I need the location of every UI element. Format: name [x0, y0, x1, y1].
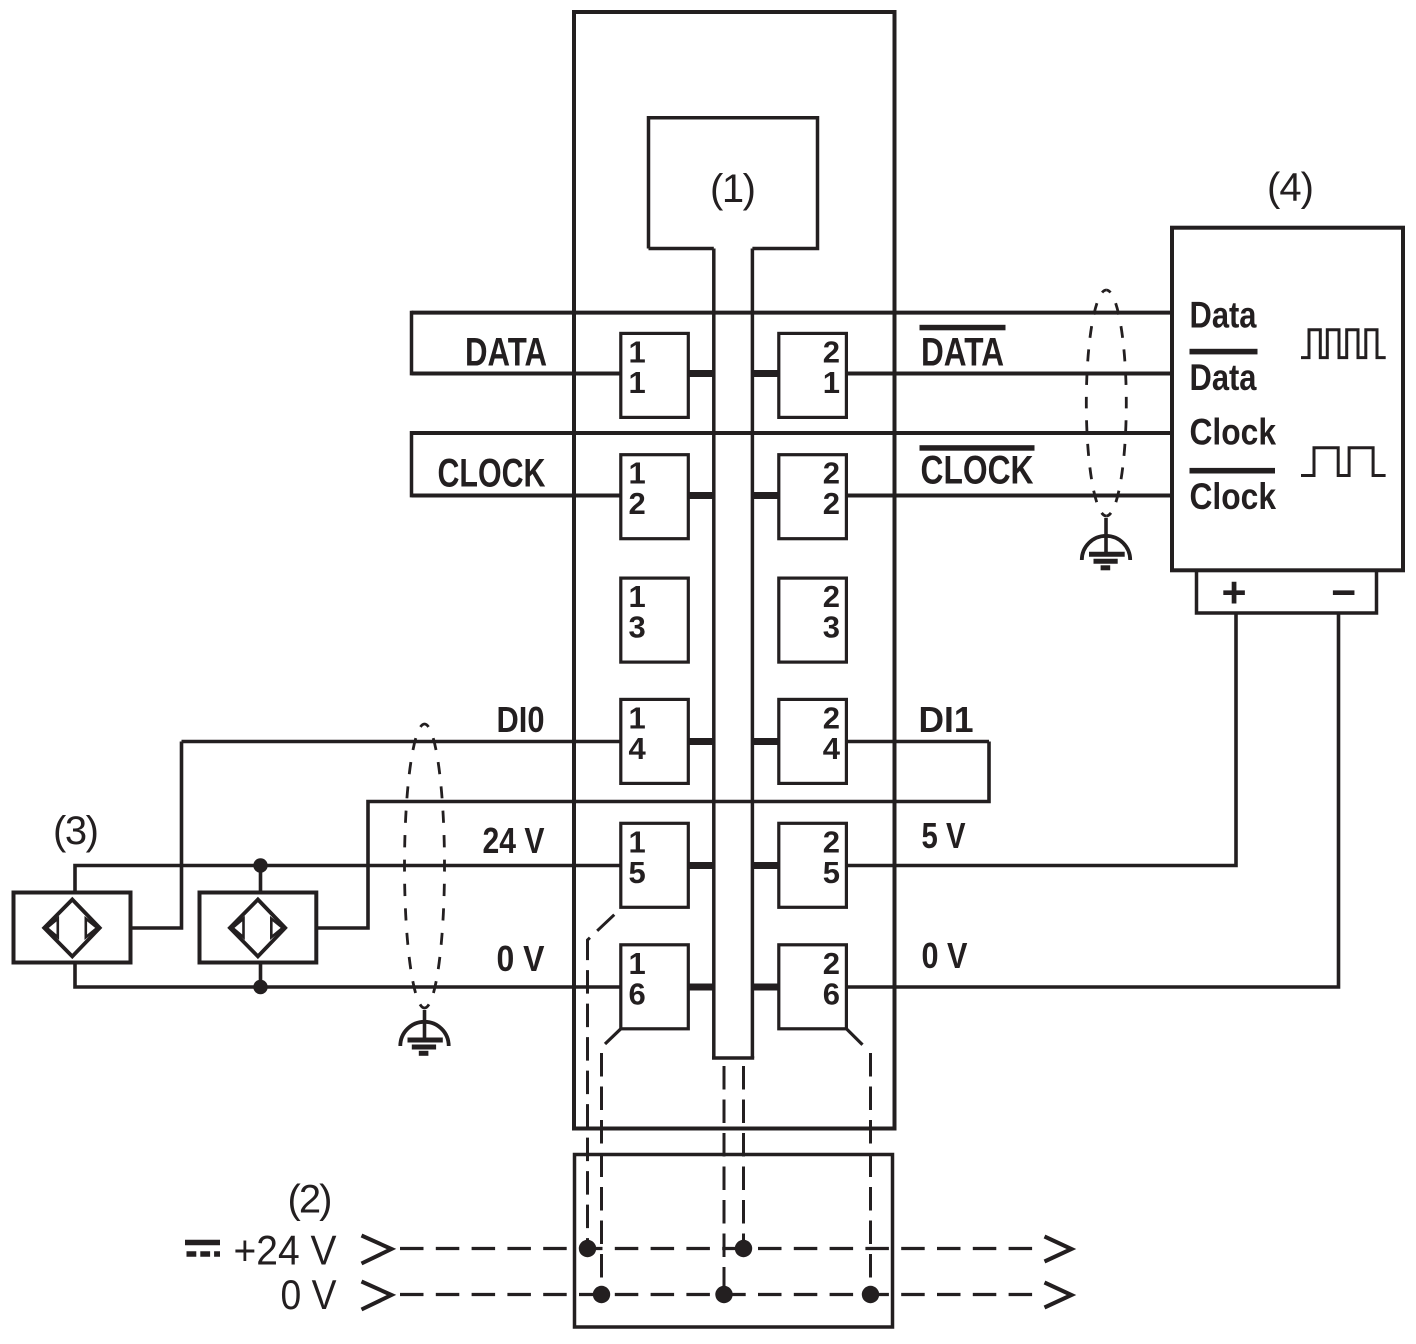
svg-text:Clock: Clock	[1190, 412, 1277, 453]
terminal digits 1/1	[629, 334, 841, 1011]
sensor 2 diamond	[230, 900, 285, 957]
CLOCK label box left cap	[410, 431, 414, 497]
DI1 wire from terminal 2/4	[846, 740, 989, 744]
DI1 return wire down	[316, 742, 989, 929]
+24V dashed rail	[400, 1247, 1037, 1250]
sensor 2 0V drop	[259, 963, 263, 988]
terminal 2/4	[779, 699, 847, 783]
junction dot sensor2 24V	[253, 858, 267, 872]
svg-text:Data: Data	[1190, 294, 1257, 335]
svg-text:2: 2	[823, 486, 840, 521]
terminal tabs row5	[688, 862, 714, 869]
shield ground symbol right: stem	[1104, 518, 1108, 553]
shield ground symbol right: bar 1	[1089, 552, 1125, 557]
overline of CLOCK-bar label	[920, 445, 1035, 451]
terminal 2/5	[779, 823, 847, 907]
fraction bar Data/Data-bar in encoder	[1190, 349, 1258, 355]
shield ground symbol left: bar 1	[408, 1038, 443, 1043]
0V left chevron	[362, 1282, 392, 1310]
dashed drop from bus stem to 0V rail	[723, 1066, 726, 1295]
0V right chevron	[1045, 1283, 1072, 1308]
module (1) outline: I/O module body	[574, 12, 895, 1129]
terminal tabs row2	[688, 492, 714, 499]
encoder supply box with + and -	[1197, 570, 1377, 613]
shield ground symbol right: bar 3	[1101, 565, 1111, 570]
internal bus stem right line	[751, 249, 755, 1059]
dashed drop from terminal 1/5 to +24V rail	[588, 909, 621, 1249]
clock waveform icon	[1301, 448, 1386, 476]
CLOCK wire left segment (label box bottom)	[412, 494, 621, 498]
svg-text:0 V: 0 V	[281, 1271, 337, 1318]
24V wire	[75, 866, 621, 893]
shield ground symbol left: bar 2	[412, 1045, 436, 1050]
terminal tabs row1	[688, 374, 779, 988]
5V wire from terminal 2/5 to encoder +	[846, 613, 1236, 866]
internal bus stem bottom cap	[712, 1056, 754, 1060]
junction dot 0V rail right	[862, 1286, 879, 1303]
junction dot +24V rail left	[579, 1240, 596, 1257]
power distribution box (2)	[575, 1155, 893, 1328]
CLOCK-bar wire right segment to encoder	[846, 494, 1172, 498]
svg-text:6: 6	[629, 976, 646, 1011]
svg-text:+24 V: +24 V	[234, 1227, 337, 1274]
+24V right chevron	[1045, 1237, 1072, 1262]
svg-text:0 V: 0 V	[922, 935, 968, 976]
svg-text:1: 1	[823, 365, 840, 400]
terminal 2/2	[779, 455, 847, 539]
shield ground symbol left: stem	[423, 1010, 427, 1039]
shield ground symbol right: bar 2	[1094, 559, 1118, 564]
fraction bar Clock/Clock-bar in encoder	[1190, 468, 1276, 474]
DC symbol dashed bar	[187, 1251, 221, 1257]
svg-text:3: 3	[629, 610, 646, 645]
DATA band top line (wire to encoder Data)	[412, 311, 1173, 315]
overline of DATA-bar label	[920, 325, 1006, 331]
terminal 2/6	[779, 945, 847, 1029]
terminal 1/5	[621, 823, 689, 907]
shield ground symbol left: arc	[400, 1022, 448, 1046]
CLOCK band top line (wire to encoder Clock)	[412, 431, 1173, 435]
junction dot +24V rail right	[735, 1240, 752, 1257]
dashed drop from terminal 1/6 to 0V rail	[600, 1053, 603, 1295]
svg-text:5: 5	[629, 855, 646, 890]
sensor 1 output wire to DI0	[131, 742, 182, 929]
terminal 2/1	[779, 333, 847, 417]
data waveform icon	[1301, 330, 1386, 358]
+24V left chevron	[362, 1236, 392, 1264]
DATA wire left segment (label box bottom)	[412, 372, 621, 376]
svg-text:DI1: DI1	[919, 699, 974, 740]
svg-text:5: 5	[823, 855, 840, 890]
svg-text:CLOCK: CLOCK	[438, 451, 546, 495]
svg-text:DATA: DATA	[921, 331, 1004, 375]
encoder box (4)	[1172, 228, 1403, 571]
DATA-bar wire right segment to encoder	[846, 372, 1172, 376]
sensor 2 24V drop	[259, 866, 263, 893]
svg-text:0 V: 0 V	[497, 938, 545, 979]
svg-text:2: 2	[629, 486, 646, 521]
svg-text:CLOCK: CLOCK	[921, 448, 1034, 492]
DATA label box left cap	[410, 311, 414, 376]
solid diagonal from terminal 1/6	[605, 1029, 621, 1044]
svg-text:4: 4	[629, 731, 647, 766]
svg-text:(3): (3)	[53, 809, 99, 853]
svg-text:Data: Data	[1190, 357, 1257, 398]
dashed drop from bus stem to +24V rail	[742, 1066, 745, 1249]
svg-text:Clock: Clock	[1190, 476, 1277, 517]
terminal 1/2	[621, 455, 689, 539]
DC symbol solid bar	[185, 1240, 220, 1246]
electronics block (1) inside module	[649, 118, 818, 249]
0V dashed rail	[400, 1293, 1037, 1296]
shield ground symbol left: bar 3	[419, 1051, 429, 1056]
shield ellipse left (sensor cable screen)	[405, 724, 425, 1008]
svg-text:DATA: DATA	[465, 330, 547, 374]
junction dot 0V rail left	[593, 1286, 610, 1303]
terminal 1/4	[621, 699, 689, 783]
sensor 1 left triangle	[47, 919, 58, 938]
terminal tabs row4	[688, 738, 714, 745]
svg-text:24 V: 24 V	[483, 820, 545, 861]
internal bus stem left line	[712, 249, 716, 1059]
svg-text:−: −	[1331, 569, 1356, 617]
0V wire right from terminal 2/6 to encoder -	[846, 613, 1338, 987]
svg-text:+: +	[1221, 569, 1246, 617]
svg-text:3: 3	[823, 610, 840, 645]
sensor (3) box 2	[200, 893, 317, 963]
shield ellipse right (cable screen)	[1086, 290, 1106, 516]
svg-text:(4): (4)	[1267, 166, 1314, 210]
svg-text:(1): (1)	[710, 167, 756, 211]
terminal 1/1	[621, 333, 689, 417]
svg-text:DI0: DI0	[497, 699, 545, 740]
sensor (3) box 1	[14, 893, 131, 963]
terminal 1/3	[621, 578, 689, 662]
terminal tabs row6	[688, 984, 714, 991]
svg-text:1: 1	[629, 365, 646, 400]
solid diagonal from terminal 2/6	[846, 1029, 862, 1045]
sensor 1 diamond	[44, 900, 99, 957]
svg-text:(2): (2)	[288, 1178, 333, 1222]
sensor 2 right triangle	[271, 919, 282, 938]
junction dot sensor2 0V	[253, 980, 267, 994]
dashed drop from terminal 2/6 to 0V rail	[869, 1053, 872, 1295]
terminal 1/6	[621, 945, 689, 1029]
sensor 2 left triangle	[233, 919, 244, 938]
0V wire left	[75, 963, 621, 988]
svg-text:6: 6	[823, 976, 840, 1011]
svg-text:5 V: 5 V	[922, 815, 966, 856]
sensor 1 right triangle	[86, 919, 97, 938]
junction dot 0V rail mid	[715, 1286, 732, 1303]
shield ground symbol right: arc	[1082, 536, 1130, 560]
terminal 2/3	[779, 578, 847, 662]
svg-text:4: 4	[823, 731, 841, 766]
DI0 wire	[182, 740, 621, 744]
